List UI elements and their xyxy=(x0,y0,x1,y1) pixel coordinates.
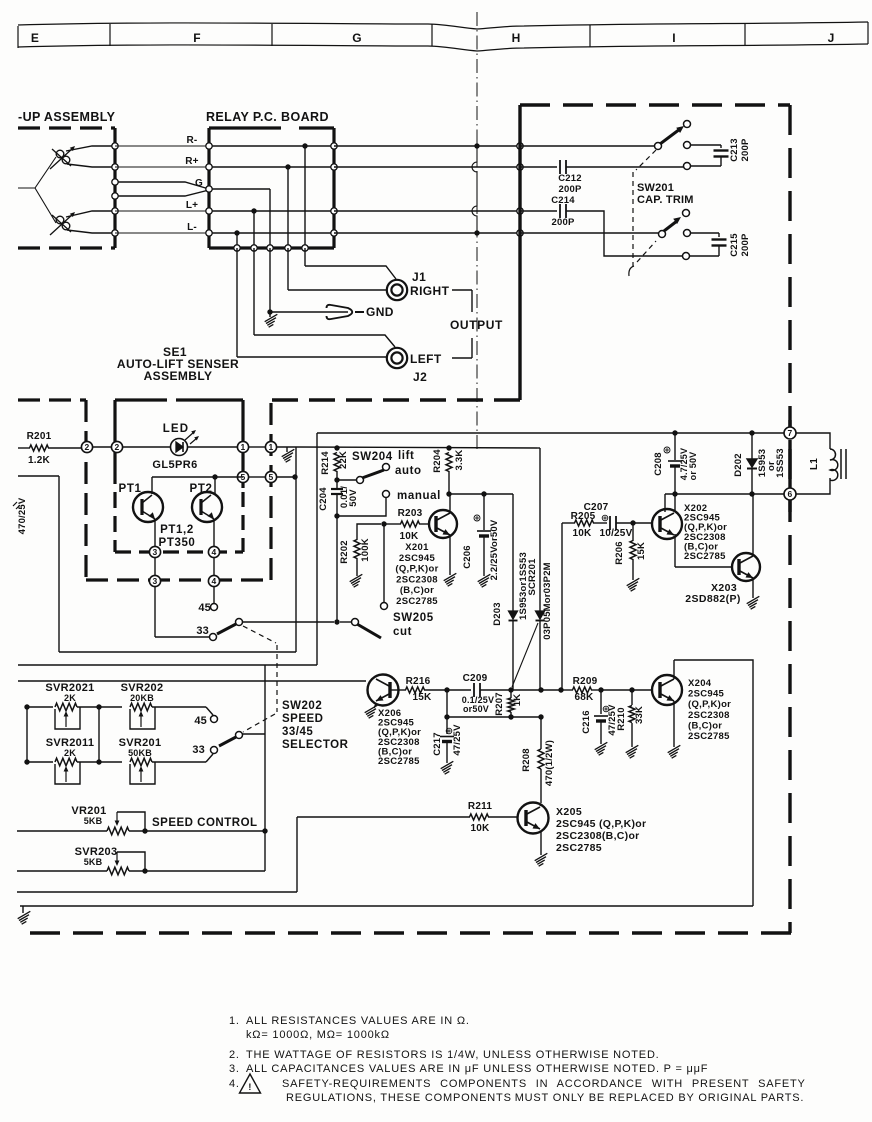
svg-text:SW202: SW202 xyxy=(282,700,322,712)
svg-text:SAFETY-REQUIREMENTS COMPONENTS: SAFETY-REQUIREMENTS COMPONENTS IN ACCORD… xyxy=(282,1078,806,1090)
svg-text:RIGHT: RIGHT xyxy=(410,284,450,298)
svg-text:4: 4 xyxy=(212,547,217,557)
svg-text:2: 2 xyxy=(85,442,90,452)
svg-text:2SC2785: 2SC2785 xyxy=(396,596,438,607)
svg-text:C204: C204 xyxy=(318,487,329,511)
svg-text:(Q,P,K)or: (Q,P,K)or xyxy=(688,699,731,710)
svg-text:3: 3 xyxy=(153,547,158,557)
svg-text:G: G xyxy=(352,31,362,45)
svg-text:R208: R208 xyxy=(521,748,532,772)
svg-text:68K: 68K xyxy=(575,692,595,703)
svg-text:2SC945: 2SC945 xyxy=(399,553,436,564)
svg-text:RELAY P.C. BOARD: RELAY P.C. BOARD xyxy=(206,110,329,124)
svg-text:2SC2785: 2SC2785 xyxy=(688,731,730,742)
svg-text:C217: C217 xyxy=(432,732,443,756)
svg-text:E: E xyxy=(31,31,39,45)
svg-text:D203: D203 xyxy=(492,602,503,626)
svg-text:7: 7 xyxy=(788,428,793,438)
svg-text:2: 2 xyxy=(115,442,120,452)
svg-text:THE WATTAGE OF RESISTORS IS 1/: THE WATTAGE OF RESISTORS IS 1/4W, UNLESS… xyxy=(246,1049,660,1061)
svg-text:J: J xyxy=(828,31,835,45)
svg-text:lift: lift xyxy=(398,450,414,462)
svg-text:2SC2785: 2SC2785 xyxy=(556,842,602,854)
svg-text:5KB: 5KB xyxy=(84,857,103,867)
svg-text:C206: C206 xyxy=(462,545,473,569)
svg-text:C209: C209 xyxy=(463,673,488,684)
svg-text:R-: R- xyxy=(187,135,198,146)
svg-text:22K: 22K xyxy=(338,451,349,469)
svg-text:SPEED CONTROL: SPEED CONTROL xyxy=(152,817,258,829)
svg-text:J1: J1 xyxy=(412,270,426,284)
svg-text:5: 5 xyxy=(269,472,274,482)
svg-text:2.2/25Vor50V: 2.2/25Vor50V xyxy=(489,519,500,580)
svg-text:R210: R210 xyxy=(616,707,627,731)
svg-text:200P: 200P xyxy=(740,138,751,161)
svg-text:33K: 33K xyxy=(634,706,645,724)
svg-text:ALL RESISTANCES VALUES ARE IN: ALL RESISTANCES VALUES ARE IN Ω. xyxy=(246,1015,470,1027)
svg-text:or50V: or50V xyxy=(463,704,489,714)
svg-text:R216: R216 xyxy=(406,676,431,687)
svg-text:C214: C214 xyxy=(551,195,575,206)
svg-text:cut: cut xyxy=(393,626,412,638)
svg-text:R204: R204 xyxy=(432,449,443,473)
svg-text:R207: R207 xyxy=(494,692,505,716)
svg-text:I: I xyxy=(672,31,676,45)
svg-text:H: H xyxy=(512,31,521,45)
svg-text:SPEED: SPEED xyxy=(282,713,324,725)
svg-text:PT1,2: PT1,2 xyxy=(160,524,194,536)
svg-text:6: 6 xyxy=(788,489,793,499)
svg-text:10K: 10K xyxy=(400,531,420,542)
svg-text:F: F xyxy=(193,31,201,45)
svg-text:PT350: PT350 xyxy=(159,537,196,549)
svg-text:C212: C212 xyxy=(558,173,582,184)
svg-text:1: 1 xyxy=(269,442,274,452)
svg-text:SCR201: SCR201 xyxy=(527,558,538,596)
svg-text:50KB: 50KB xyxy=(128,748,152,758)
svg-text:C208: C208 xyxy=(653,452,664,476)
svg-text:200P: 200P xyxy=(740,233,751,256)
svg-text:1.: 1. xyxy=(229,1015,240,1027)
svg-text:C216: C216 xyxy=(581,710,592,734)
svg-text:33: 33 xyxy=(192,744,205,756)
svg-text:1SS53: 1SS53 xyxy=(775,448,786,478)
svg-text:15K: 15K xyxy=(636,542,647,560)
svg-text:G: G xyxy=(195,178,203,189)
svg-text:or 50V: or 50V xyxy=(688,452,698,481)
svg-text:10/25V: 10/25V xyxy=(600,528,633,539)
svg-text:4.: 4. xyxy=(229,1078,240,1090)
svg-text:SW204: SW204 xyxy=(352,451,393,463)
svg-text:33/45: 33/45 xyxy=(282,726,313,738)
svg-text:2SD882(P): 2SD882(P) xyxy=(685,593,741,605)
svg-text:4: 4 xyxy=(212,576,217,586)
svg-text:47/25V: 47/25V xyxy=(452,724,463,756)
svg-text:ASSEMBLY: ASSEMBLY xyxy=(144,369,213,383)
svg-text:200P: 200P xyxy=(552,217,575,228)
svg-text:R+: R+ xyxy=(185,156,198,167)
svg-text:5KB: 5KB xyxy=(84,816,103,826)
svg-text:R206: R206 xyxy=(614,541,625,565)
svg-text:45: 45 xyxy=(198,602,211,614)
svg-text:3: 3 xyxy=(153,576,158,586)
svg-text:45: 45 xyxy=(194,715,207,727)
svg-text:SW205: SW205 xyxy=(393,612,434,624)
svg-text:R211: R211 xyxy=(468,801,492,812)
svg-text:15K: 15K xyxy=(413,692,433,703)
svg-text:1.2K: 1.2K xyxy=(28,455,51,466)
svg-text:L+: L+ xyxy=(186,200,198,211)
svg-text:2K: 2K xyxy=(64,748,76,758)
svg-text:X201: X201 xyxy=(405,542,429,553)
svg-text:PT2: PT2 xyxy=(190,483,213,495)
svg-text:R203: R203 xyxy=(398,508,423,519)
svg-text:auto: auto xyxy=(395,465,422,477)
svg-text:!: ! xyxy=(248,1082,251,1092)
svg-text:(B,C)or: (B,C)or xyxy=(400,585,434,596)
svg-text:manual: manual xyxy=(397,490,441,502)
svg-text:2SC2308: 2SC2308 xyxy=(396,574,438,585)
svg-text:PT1: PT1 xyxy=(119,483,142,495)
svg-text:2K: 2K xyxy=(64,693,76,703)
svg-text:GL5PR6: GL5PR6 xyxy=(152,459,197,471)
svg-text:GND: GND xyxy=(366,305,394,319)
svg-text:SELECTOR: SELECTOR xyxy=(282,739,349,751)
svg-text:1: 1 xyxy=(241,442,246,452)
svg-text:2.: 2. xyxy=(229,1049,240,1061)
svg-text:(B,C)or: (B,C)or xyxy=(688,720,722,731)
svg-text:D202: D202 xyxy=(733,453,744,477)
svg-text:R214: R214 xyxy=(320,451,331,475)
svg-text:2SC2308(B,C)or: 2SC2308(B,C)or xyxy=(556,830,640,842)
svg-text:2SC2308: 2SC2308 xyxy=(688,710,730,721)
svg-text:470(1/2W): 470(1/2W) xyxy=(544,740,555,786)
svg-text:2SC2785: 2SC2785 xyxy=(378,756,420,767)
svg-text:50V: 50V xyxy=(348,489,359,507)
svg-text:SW201: SW201 xyxy=(637,182,674,194)
svg-text:C213: C213 xyxy=(729,138,740,162)
svg-text:CAP. TRIM: CAP. TRIM xyxy=(637,194,694,206)
svg-text:3.: 3. xyxy=(229,1063,240,1075)
svg-text:LED: LED xyxy=(163,423,190,435)
svg-text:OUTPUT: OUTPUT xyxy=(450,318,503,332)
svg-text:3.3K: 3.3K xyxy=(454,450,465,471)
svg-text:1K: 1K xyxy=(512,694,523,707)
svg-text:X205: X205 xyxy=(556,806,582,818)
svg-text:LEFT: LEFT xyxy=(410,352,442,366)
svg-text:03P05Mor03P2M: 03P05Mor03P2M xyxy=(542,562,553,640)
svg-text:R209: R209 xyxy=(573,676,598,687)
svg-text:-UP ASSEMBLY: -UP ASSEMBLY xyxy=(18,110,116,124)
svg-text:200P: 200P xyxy=(559,184,582,195)
svg-text:REGULATIONS, THESE COMPONENTS: REGULATIONS, THESE COMPONENTS MUST ONLY … xyxy=(286,1092,804,1104)
svg-text:C215: C215 xyxy=(729,233,740,257)
svg-text:J2: J2 xyxy=(413,370,427,384)
svg-text:10K: 10K xyxy=(573,528,593,539)
svg-text:C207: C207 xyxy=(584,502,609,513)
svg-text:(Q,P,K)or: (Q,P,K)or xyxy=(395,564,438,575)
svg-text:2SC945 (Q,P,K)or: 2SC945 (Q,P,K)or xyxy=(556,818,646,830)
svg-text:2SC2785: 2SC2785 xyxy=(684,551,726,562)
svg-text:R201: R201 xyxy=(27,431,52,442)
svg-text:L-: L- xyxy=(187,222,197,233)
svg-text:L1: L1 xyxy=(809,458,820,470)
svg-text:kΩ= 1000Ω, MΩ= 1000kΩ: kΩ= 1000Ω, MΩ= 1000kΩ xyxy=(246,1029,390,1041)
svg-text:470/25V: 470/25V xyxy=(17,497,28,534)
svg-text:100K: 100K xyxy=(360,538,371,562)
svg-text:33: 33 xyxy=(196,625,209,637)
svg-text:ALL CAPACITANCES VALUES ARE IN: ALL CAPACITANCES VALUES ARE IN μF UNLESS… xyxy=(246,1063,708,1075)
svg-text:R202: R202 xyxy=(339,540,350,564)
svg-text:X204: X204 xyxy=(688,678,712,689)
svg-text:20KB: 20KB xyxy=(130,693,154,703)
svg-text:10K: 10K xyxy=(471,823,491,834)
svg-text:2SC945: 2SC945 xyxy=(688,689,725,700)
